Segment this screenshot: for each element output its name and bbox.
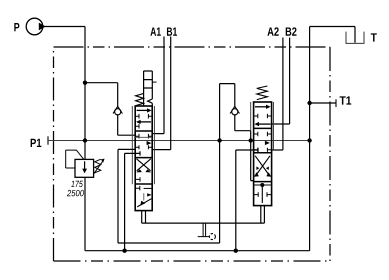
label T1	[340, 96, 352, 104]
valve V2 box3 inner arrows	[256, 166, 259, 170]
wire port B1	[152, 37, 171, 150]
valve V1 box3 crossed arrows	[137, 159, 151, 171]
valve V2 box1 arrow left	[258, 123, 270, 125]
valve V1 box4 mid passage	[143, 193, 145, 200]
valve V1 detent tick	[152, 81, 156, 83]
check valve CV2 ball	[232, 109, 238, 115]
valve V2 spring	[257, 86, 268, 100]
label P	[14, 23, 19, 31]
valve V1 box2 blocked ports	[135, 134, 152, 139]
valve V2 right rail	[273, 102, 275, 150]
wire tank top line	[310, 27, 355, 43]
pump output arrow	[39, 23, 46, 31]
valve V2 box4 blocked ports	[254, 192, 272, 197]
relief valve RV1 adjust arrow	[94, 161, 103, 173]
valve V2 box2 blocked ports	[254, 132, 272, 137]
port T1 tick	[335, 99, 337, 107]
valve V1 body	[135, 106, 152, 211]
valve V1 box1 blocked ports	[135, 114, 152, 119]
valve V1 box1 lower blocked port	[135, 124, 139, 128]
valve V2 left rail	[250, 102, 252, 131]
valve V2 position dividers	[254, 128, 272, 181]
valve V2 box3 crossed arrows	[255, 156, 270, 176]
wire branch to check valve 1	[85, 83, 118, 108]
check valve CV1 seat	[113, 106, 122, 113]
relief valve RV1 body	[75, 159, 94, 177]
wire P1 gallery line	[48, 140, 310, 142]
check valve CV2 seat	[230, 106, 239, 113]
node gallery-tank junction	[307, 138, 311, 142]
wire bypass loop top to check valve 2	[220, 84, 235, 108]
wire pump vertical feed	[84, 27, 86, 160]
relief valve RV1 setting text 175	[71, 181, 83, 187]
valve V1 spring	[136, 94, 144, 106]
label A1	[150, 27, 160, 35]
node gallery-loop junction	[217, 138, 221, 142]
valve V2 body	[254, 102, 272, 206]
valve V1 detent column	[144, 71, 153, 106]
valve V1 position dividers	[135, 131, 152, 184]
wire check valve 1 to valve section 1 inlet	[118, 115, 136, 135]
wire tank return bottom line	[85, 250, 310, 252]
valve V1 box3 blocked port	[135, 177, 140, 181]
wire valve V2 exhaust to return	[236, 148, 258, 251]
wire bypass loop under valve V1	[118, 84, 220, 243]
valve V1 box4 lever arrow	[137, 199, 151, 207]
node return-exhaust2 junction	[234, 249, 238, 253]
node valve V2 box4 junction	[260, 183, 264, 187]
valve V1 box2 internal passage	[135, 136, 152, 138]
label A2	[267, 27, 278, 35]
drain port symbol	[198, 223, 210, 237]
node gallery-rail junction	[249, 138, 253, 142]
wire tank riser line	[309, 27, 311, 251]
label P1	[31, 139, 42, 147]
valve V1 box1 arrow left	[140, 121, 151, 123]
wire port A2	[272, 38, 283, 151]
valve V2 box4 tee passage	[254, 185, 272, 203]
drain port plug circle	[209, 234, 215, 240]
valve V2 box2 arrow right	[265, 141, 270, 145]
valve V1 box1 arrow right	[137, 109, 148, 111]
boundary (valve block envelope, dash-dot)	[54, 46, 331, 48]
wire port A1	[152, 37, 164, 134]
relief valve RV1 flow arrow	[84, 161, 86, 169]
valve V1 box4 blocked port	[135, 186, 140, 190]
tank symbol	[346, 32, 364, 44]
node return-exhaust1 junction	[122, 249, 126, 253]
valve V1 box2 blocked ports low	[135, 145, 152, 149]
valve V2 box1 arrow right	[255, 106, 266, 108]
relief valve RV1 pilot line	[66, 150, 84, 168]
wire valve V1 exhaust to return	[125, 151, 140, 251]
node T1 junction	[307, 101, 311, 105]
wire port B2	[272, 38, 290, 125]
label B2	[286, 27, 297, 35]
valve V1 right rail	[153, 106, 155, 184]
pump P symbol	[26, 18, 43, 35]
wire relief valve to return line	[84, 177, 86, 250]
node pump branch junction	[83, 81, 87, 85]
wire bottom link line	[142, 222, 265, 224]
check valve CV1 ball	[115, 109, 121, 115]
valve V1 left rail	[131, 106, 133, 184]
relief valve RV1 setting text 2500	[67, 190, 84, 196]
port P1 tick	[47, 136, 49, 144]
valve V2 box1 blocked ports	[254, 114, 272, 119]
node gallery-pump junction	[83, 138, 87, 142]
valve V1 box4 side line	[144, 187, 153, 189]
label T	[371, 33, 377, 41]
wire pump to down-corner	[43, 26, 85, 28]
label B1	[167, 27, 177, 35]
wire check valve 2 to valve section 2 inlet	[235, 115, 254, 181]
relief valve RV1 spring	[95, 159, 101, 173]
valve V2 box2 blocked ports low	[254, 148, 272, 152]
wire T1 port line	[310, 102, 336, 104]
wire valve V1 bottom drops	[142, 211, 146, 224]
valve V1 box2 arrow right	[147, 141, 152, 145]
wire valve V2 bottom drops	[261, 206, 265, 224]
